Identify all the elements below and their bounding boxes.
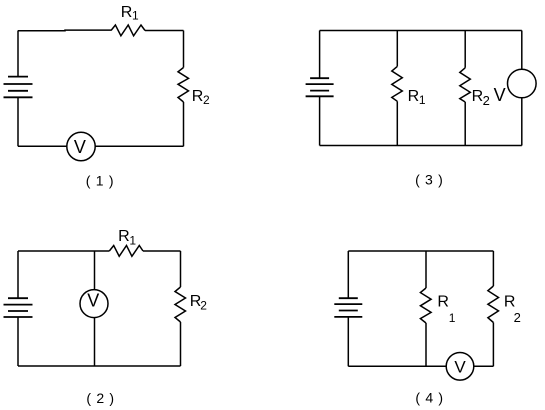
voltmeter V circuit 3 bbox=[508, 69, 537, 98]
wire C1 top right segment bbox=[145, 30, 184, 32]
svg-text:1: 1 bbox=[449, 311, 456, 325]
wire C4 bottom left segment bbox=[348, 365, 446, 367]
wire C1 left bottom segment bbox=[17, 97, 19, 146]
resistor R2 circuit 4 bbox=[488, 286, 499, 323]
wire C2 right lower segment bbox=[180, 322, 182, 366]
svg-text:( 1 ): ( 1 ) bbox=[86, 173, 114, 189]
wire C3 right lower segment bbox=[521, 98, 523, 146]
wire C3 bottom segment bbox=[320, 145, 522, 147]
svg-text:R: R bbox=[121, 4, 133, 21]
svg-text:( 2 ): ( 2 ) bbox=[86, 390, 114, 406]
label R2 circuit 2 bbox=[190, 293, 208, 312]
svg-text:R: R bbox=[408, 88, 420, 105]
wire C2 top left segment bbox=[18, 250, 109, 252]
wire C2 right upper segment bbox=[180, 251, 182, 287]
wire C1 left top segment bbox=[17, 31, 19, 77]
resistor R1 circuit 1 bbox=[111, 25, 145, 36]
svg-text:R: R bbox=[118, 228, 130, 245]
label R2 circuit 3 bbox=[472, 88, 490, 108]
svg-text:V: V bbox=[74, 137, 86, 157]
wire C2 branch upper segment bbox=[94, 251, 96, 290]
svg-text:V: V bbox=[454, 358, 466, 377]
svg-text:R: R bbox=[192, 88, 204, 105]
wire C3 right upper segment bbox=[521, 31, 523, 70]
voltmeter V circuit 1 bbox=[67, 132, 95, 160]
wire C4 bottom right segment bbox=[474, 365, 494, 367]
svg-text:1: 1 bbox=[132, 9, 139, 23]
resistor R1 circuit 4 bbox=[420, 288, 431, 323]
wire C4 branch upper segment bbox=[425, 251, 427, 288]
resistor R2 circuit 2 bbox=[175, 287, 186, 322]
wire C4 right upper segment bbox=[492, 251, 494, 286]
battery B4 circuit 4 bbox=[334, 298, 362, 317]
wire C4 left bottom segment bbox=[347, 317, 349, 366]
wire C3 branch2 lower segment bbox=[464, 102, 466, 146]
svg-text:( 3 ): ( 3 ) bbox=[415, 172, 443, 188]
label R1 circuit 3 bbox=[408, 88, 426, 107]
battery B2 circuit 2 bbox=[4, 298, 33, 317]
wire C3 top segment bbox=[320, 30, 522, 32]
wire C1 right upper segment bbox=[183, 31, 185, 68]
svg-text:V: V bbox=[494, 85, 506, 105]
label R1 circuit 2 bbox=[118, 228, 136, 248]
svg-text:2: 2 bbox=[200, 298, 207, 312]
wire C3 branch1 upper segment bbox=[396, 31, 398, 67]
wire C2 top right segment bbox=[143, 250, 181, 252]
svg-text:2: 2 bbox=[483, 93, 490, 108]
label R1 circuit 4 bbox=[437, 294, 455, 326]
svg-text:1: 1 bbox=[129, 234, 136, 248]
wire C3 branch2 upper segment bbox=[464, 31, 466, 68]
wire C4 top segment bbox=[348, 250, 493, 252]
svg-text:R: R bbox=[472, 88, 484, 105]
svg-text:2: 2 bbox=[203, 93, 210, 107]
wire C1 top left segment bbox=[18, 29, 111, 32]
wire C2 bottom segment bbox=[18, 365, 181, 367]
battery B1 circuit 1 bbox=[4, 77, 33, 98]
wire C1 bottom left segment bbox=[18, 145, 67, 147]
wire C2 branch lower segment bbox=[94, 318, 96, 366]
resistor R2 circuit 1 bbox=[178, 68, 189, 103]
label R2 circuit 1 bbox=[192, 88, 210, 107]
svg-text:1: 1 bbox=[419, 93, 426, 107]
label R1 circuit 1 bbox=[121, 4, 139, 22]
wire C1 bottom right segment bbox=[95, 145, 183, 147]
label R2 circuit 4 bbox=[504, 294, 521, 326]
svg-text:R: R bbox=[437, 294, 449, 311]
voltmeter V circuit 2 bbox=[80, 290, 108, 318]
wire C3 branch1 lower segment bbox=[396, 101, 398, 145]
wire C4 left top segment bbox=[347, 251, 349, 298]
svg-text:2: 2 bbox=[514, 310, 521, 325]
wire C2 left bottom segment bbox=[17, 317, 19, 366]
resistor R2 circuit 3 bbox=[460, 68, 471, 102]
resistor R1 circuit 3 bbox=[392, 66, 403, 101]
voltmeter V circuit 4 bbox=[446, 353, 474, 381]
wire C4 branch lower segment bbox=[425, 323, 427, 366]
svg-text:V: V bbox=[87, 291, 99, 311]
wire C4 right lower segment bbox=[492, 323, 494, 367]
resistor R1 circuit 2 bbox=[109, 246, 143, 257]
wire C1 right lower segment bbox=[183, 102, 185, 146]
svg-text:( 4 ): ( 4 ) bbox=[415, 390, 443, 406]
battery B3 circuit 3 bbox=[306, 78, 334, 96]
wire C2 left top segment bbox=[17, 251, 19, 298]
wire C3 left bottom segment bbox=[319, 96, 321, 145]
wire C3 left top segment bbox=[319, 31, 321, 79]
svg-text:R: R bbox=[504, 294, 516, 311]
